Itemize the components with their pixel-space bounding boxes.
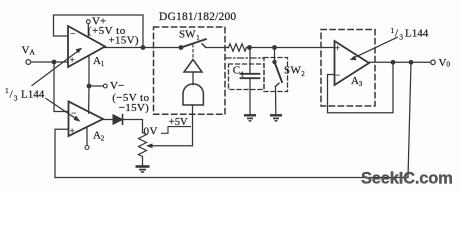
terminal V0: [431, 60, 436, 65]
node VA terminal: [26, 60, 31, 65]
ground below C1: [244, 115, 256, 121]
svg-text:SW: SW: [284, 64, 302, 76]
svg-text:C: C: [233, 65, 240, 77]
potentiometer R1: [139, 133, 147, 167]
wire driver to gate: [192, 72, 194, 85]
wire bottom feedback: [55, 177, 408, 179]
resistor R2: [229, 44, 247, 51]
wire A1 feedback loop: [54, 15, 144, 48]
svg-text:3: 3: [399, 33, 403, 42]
wire driver stem down to wiper line: [192, 105, 194, 146]
wire A3 output: [369, 61, 431, 63]
switch SW2: [274, 48, 276, 63]
driver buffer triangle: [184, 60, 202, 73]
svg-text:0: 0: [446, 60, 450, 69]
arrow label to A1: [32, 50, 79, 85]
wire V- junction down to A2 top edge: [88, 86, 90, 113]
node V- junction: [87, 84, 92, 89]
svg-text:−15V): −15V): [119, 102, 149, 114]
box SW2 dashed: [264, 58, 288, 92]
svg-text:3: 3: [14, 94, 18, 103]
svg-text:1: 1: [196, 34, 200, 42]
svg-text:SeekIC.com: SeekIC.com: [361, 170, 453, 188]
pin V+ terminal of A1: [87, 24, 89, 38]
node output junction 2: [409, 60, 414, 65]
svg-text:DG181/182/200: DG181/182/200: [159, 11, 236, 23]
capacitor C1: [249, 48, 251, 74]
ground below potentiometer: [136, 167, 150, 173]
svg-text:1: 1: [5, 86, 9, 95]
svg-text:+: +: [70, 126, 75, 136]
svg-text:1: 1: [391, 26, 395, 35]
wire resistor to node: [247, 47, 275, 49]
wire A1 output to SW1: [105, 47, 181, 49]
svg-text:SW: SW: [179, 28, 196, 40]
svg-text:−: −: [70, 28, 75, 38]
svg-text:−: −: [71, 108, 76, 118]
svg-text:1: 1: [101, 60, 105, 68]
op-amp A1: [68, 26, 105, 67]
node VA junction: [52, 60, 57, 65]
node output junction 1: [391, 60, 396, 65]
wire VA to A1 + input: [31, 61, 68, 63]
svg-text:+: +: [335, 43, 340, 53]
svg-text:A: A: [93, 130, 101, 142]
node SW2 junction: [272, 45, 277, 50]
wire diode to pot: [123, 120, 143, 133]
wire SW1 to resistor: [206, 47, 229, 49]
wire A2 output to diode: [103, 119, 113, 121]
arrow label to A3: [353, 37, 398, 58]
box DG181/182/200 dashed: [154, 27, 226, 114]
box C1 dashed: [229, 64, 265, 90]
svg-text:+5V: +5V: [169, 117, 188, 128]
wire dash-dot linkage: [225, 57, 264, 59]
svg-text:A: A: [30, 48, 36, 57]
wiper arrow of potentiometer: [150, 145, 193, 147]
ground below SW2: [270, 115, 282, 121]
box A3 dashed: [321, 30, 375, 107]
wire output down to bottom feedback: [408, 62, 411, 177]
svg-text:V: V: [22, 45, 30, 57]
svg-text:1: 1: [241, 71, 245, 79]
switch SW1: [179, 45, 184, 50]
wire node to A3 + input: [275, 47, 335, 49]
arrow label to A2: [46, 99, 78, 120]
svg-text:3: 3: [359, 80, 363, 88]
svg-text:A: A: [93, 55, 101, 67]
wire A3 - input feedback: [328, 62, 394, 112]
svg-text:V: V: [439, 57, 447, 69]
svg-text:−: −: [335, 70, 340, 80]
pin stub below A2: [86, 128, 88, 146]
svg-text:V−: V−: [110, 80, 124, 92]
pin V- stub of A1: [88, 56, 90, 86]
op-amp A3: [335, 41, 370, 85]
wire bottom feedback up to A2 + input: [55, 129, 69, 177]
svg-text:+15V): +15V): [109, 34, 139, 46]
svg-text:0V: 0V: [144, 126, 158, 138]
node C1 junction: [247, 45, 252, 50]
node A1 output junction: [141, 45, 146, 50]
driver gate bullet: [183, 84, 203, 105]
svg-text:A: A: [351, 75, 359, 87]
diode D1: [113, 115, 123, 125]
wire VA junction down to A2 - input: [54, 62, 69, 112]
svg-text:2: 2: [101, 135, 105, 143]
waveform control 0V/+5V step: [162, 127, 191, 134]
wire dashed control SW1 to driver: [192, 45, 194, 59]
svg-text:L144: L144: [21, 89, 45, 101]
op-amp A2: [69, 102, 104, 137]
svg-text:L144: L144: [405, 28, 429, 40]
wire V- junction to terminal: [89, 85, 103, 87]
svg-text:2: 2: [301, 70, 305, 78]
svg-text:+: +: [70, 55, 75, 65]
